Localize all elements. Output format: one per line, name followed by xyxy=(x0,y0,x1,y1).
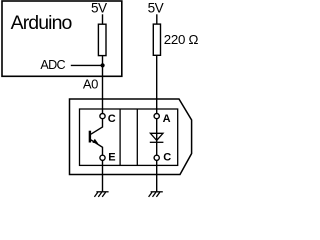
terminal C (LED cathode) xyxy=(154,155,159,160)
phototransistor Q1 collector lead xyxy=(91,119,103,134)
optocoupler package outline U1 xyxy=(70,99,192,175)
LED D1 triangle xyxy=(150,133,163,140)
resistor R1 (pull-up inside Arduino) xyxy=(98,24,106,55)
terminal C (phototransistor collector) xyxy=(100,114,105,119)
wire LED cathode to ground xyxy=(156,160,158,191)
phototransistor Q1 base bar xyxy=(89,131,91,143)
svg-text:A0: A0 xyxy=(83,77,98,92)
wire A to LED xyxy=(156,119,158,143)
optocoupler inner case xyxy=(80,109,178,165)
svg-text:5V: 5V xyxy=(91,1,107,16)
wire LED to terminal C xyxy=(156,142,158,155)
wire 5V to resistor R1 xyxy=(102,14,104,24)
Arduino block outline xyxy=(2,1,122,76)
wire ADC to junction xyxy=(71,64,103,66)
svg-text:A: A xyxy=(163,113,171,125)
phototransistor Q1 emitter lead xyxy=(91,140,103,155)
wire 5V to resistor R2 xyxy=(156,14,158,24)
svg-text:E: E xyxy=(108,152,115,164)
divider line right xyxy=(136,109,138,165)
wire E to ground xyxy=(102,160,104,191)
ground (left) xyxy=(94,192,108,197)
junction dot node A0 xyxy=(101,63,105,67)
svg-text:220 Ω: 220 Ω xyxy=(164,32,199,47)
terminal E (phototransistor emitter) xyxy=(100,155,105,160)
wire R2 to terminal A xyxy=(156,55,158,113)
svg-text:5V: 5V xyxy=(148,1,164,16)
svg-text:Arduino: Arduino xyxy=(11,12,73,34)
divider line left xyxy=(119,109,121,165)
svg-text:C: C xyxy=(163,152,171,164)
svg-text:C: C xyxy=(108,113,116,125)
resistor R2 220 ohm xyxy=(153,24,160,55)
wire R1 to terminal C (through node A0) xyxy=(102,56,104,114)
LED D1 cathode bar xyxy=(150,141,164,143)
ground (right) xyxy=(149,192,163,197)
terminal A (LED anode) xyxy=(154,114,159,119)
emitter arrow xyxy=(92,139,98,144)
svg-text:ADC: ADC xyxy=(40,58,65,72)
